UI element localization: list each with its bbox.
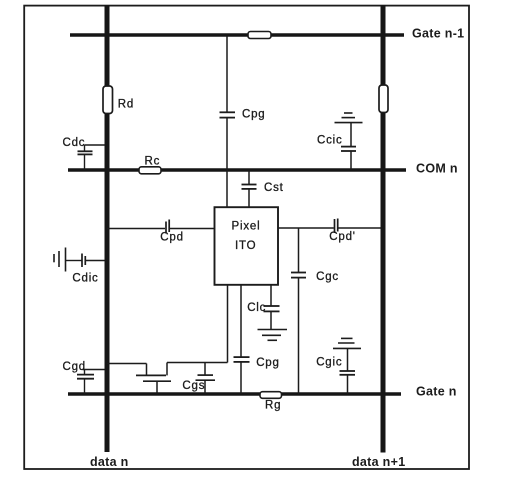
svg-text:Ccic: Ccic bbox=[317, 134, 343, 146]
TFT drain drop bbox=[166, 363, 168, 376]
wire: pixel box bottom to node (x=227.5) bbox=[227, 285, 229, 363]
wire: data n bus vertical bbox=[105, 5, 110, 452]
capacitor Ccic bbox=[341, 123, 356, 170]
svg-text:Cdic: Cdic bbox=[72, 273, 98, 285]
capacitor Cdc bbox=[78, 145, 106, 170]
svg-text:data n+1: data n+1 bbox=[352, 455, 405, 469]
wire: data n to TFT source bbox=[107, 363, 147, 365]
capacitor Cgc (pixel node to gate n) bbox=[291, 228, 306, 394]
capacitor Cpd' (pixel to data n+1) bbox=[278, 219, 381, 234]
svg-text:COM n: COM n bbox=[416, 162, 458, 176]
svg-text:Gate n: Gate n bbox=[416, 384, 457, 398]
capacitor Clc bbox=[264, 285, 280, 329]
resistor Rc bbox=[139, 167, 161, 174]
capacitor Cpg (top, gate n-1 to COM) bbox=[220, 36, 236, 170]
capacitor Cdic bbox=[66, 254, 105, 268]
resistor Rg bbox=[260, 392, 282, 399]
svg-text:data n: data n bbox=[90, 455, 129, 469]
wire: Gate n-1 bus horizontal bbox=[70, 33, 404, 36]
node: pixel ITO text bbox=[232, 221, 261, 252]
svg-text:Cpg: Cpg bbox=[256, 357, 280, 369]
TFT gate bar bbox=[143, 380, 171, 382]
svg-text:Cgs: Cgs bbox=[182, 380, 205, 392]
svg-text:Pixel: Pixel bbox=[232, 221, 261, 233]
svg-text:Cgd: Cgd bbox=[63, 361, 87, 373]
capacitor Cpd (data n to pixel) bbox=[107, 220, 215, 234]
svg-text:Cdc: Cdc bbox=[63, 137, 86, 149]
svg-text:Clc: Clc bbox=[247, 302, 266, 314]
svg-text:ITO: ITO bbox=[235, 240, 256, 252]
transistor Q1 (TFT) bbox=[107, 363, 171, 395]
TFT gate stem to Gate n bbox=[156, 381, 158, 394]
svg-text:Rc: Rc bbox=[145, 156, 161, 168]
capacitor Cgd bbox=[77, 370, 105, 395]
svg-text:Cst: Cst bbox=[264, 182, 284, 194]
svg-text:Cpg: Cpg bbox=[242, 109, 266, 121]
resistor (unlabeled, on data n+1 line) bbox=[379, 85, 388, 113]
wire: Gate n bus horizontal bbox=[68, 392, 401, 396]
capacitor Cgs bbox=[196, 363, 216, 395]
ground (below Clc) bbox=[258, 330, 288, 341]
svg-text:Rg: Rg bbox=[265, 399, 281, 411]
resistor Rd bbox=[103, 86, 113, 114]
wire: COM n bus horizontal bbox=[68, 168, 406, 171]
ground (above Cgic) bbox=[333, 338, 361, 348]
TFT channel bar bbox=[136, 374, 166, 376]
svg-text:Gate n-1: Gate n-1 bbox=[412, 26, 464, 40]
resistor (unlabeled, on Gate n-1 line) bbox=[248, 32, 271, 39]
capacitor Cpg (pixel to gate n) bbox=[234, 285, 250, 394]
Pixel ITO box U1 bbox=[215, 207, 279, 285]
ground (left of Cdic, rotated) bbox=[54, 248, 66, 272]
ground (above Ccic) bbox=[335, 113, 363, 123]
svg-text:Cgc: Cgc bbox=[316, 271, 339, 283]
wire: data n+1 bus vertical bbox=[381, 5, 386, 453]
wire: COM n to Pixel box top (x=227) bbox=[226, 170, 228, 207]
svg-text:Rd: Rd bbox=[118, 98, 134, 110]
wire: TFT drain to pixel node bbox=[167, 362, 228, 364]
svg-text:Cpd: Cpd bbox=[160, 232, 184, 244]
capacitor Cst bbox=[242, 170, 257, 207]
svg-text:Cpd': Cpd' bbox=[329, 231, 356, 243]
svg-text:Cgic: Cgic bbox=[316, 357, 342, 369]
capacitor Cgic bbox=[340, 349, 356, 394]
